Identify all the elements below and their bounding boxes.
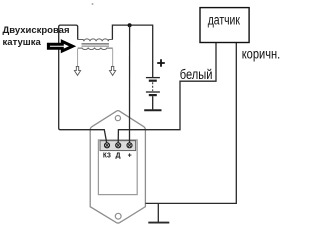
svg-text:катушка: катушка xyxy=(3,37,42,48)
svg-text:белый: белый xyxy=(180,67,213,82)
spark arrow left xyxy=(74,66,80,75)
wire коричн. (sensor to module ground) xyxy=(145,43,236,204)
spark arrow right xyxy=(110,66,116,75)
coil T1 secondary winding xyxy=(78,48,113,50)
wire (coil right lead, top rail, battery lead) xyxy=(112,25,152,77)
sensor box xyxy=(200,8,249,43)
coil T1 core xyxy=(82,43,110,45)
module mounting hole bottom xyxy=(115,213,121,219)
ground symbol xyxy=(148,222,169,224)
label "Двухискровая катушка" xyxy=(3,25,70,48)
svg-text:+: + xyxy=(128,153,132,160)
callout arrow xyxy=(48,42,72,51)
module terminal strip xyxy=(100,141,136,151)
svg-text:коричн.: коричн. xyxy=(242,47,281,62)
terminal Д xyxy=(116,143,121,148)
wire (coil primary left lead to KZ terminal) xyxy=(59,25,107,143)
wire (junction to + terminal) xyxy=(129,25,131,142)
ground stub wire xyxy=(157,203,159,222)
speck artifact xyxy=(92,3,94,5)
svg-text:КЗ: КЗ xyxy=(103,152,111,159)
svg-text:Д: Д xyxy=(116,152,121,159)
svg-text:датчик: датчик xyxy=(208,13,240,28)
terminal КЗ xyxy=(104,143,109,148)
terminal + xyxy=(127,143,132,148)
battery GB1 xyxy=(146,78,160,110)
ignition module (commutator) body xyxy=(90,111,145,223)
label + (battery) xyxy=(157,59,165,67)
module mounting hole top xyxy=(115,116,120,121)
battery ground bar xyxy=(144,109,161,111)
svg-text:Двухискровая: Двухискровая xyxy=(3,25,70,36)
module inner panel xyxy=(98,140,137,195)
junction dot xyxy=(128,23,132,27)
terminal labels КЗ Д + xyxy=(103,152,132,159)
spark output lead left xyxy=(77,49,79,66)
spark output lead right xyxy=(112,49,114,66)
wire белый (sensor to Д terminal) xyxy=(118,43,216,143)
coil T1 primary winding xyxy=(78,39,113,41)
